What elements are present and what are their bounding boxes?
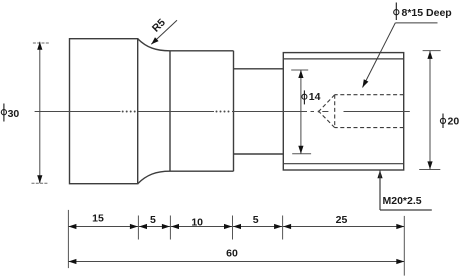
dimension Ø14 extension ticks: [291, 70, 311, 154]
centerline dot group 1: [122, 111, 136, 113]
svg-text:15: 15: [92, 212, 104, 224]
fillet R5 bottom curve: [138, 171, 170, 184]
bottom right extension line: [403, 216, 405, 276]
svg-text:5: 5: [253, 214, 259, 226]
svg-text:10: 10: [191, 216, 203, 228]
shaft section 2 outline: [170, 51, 234, 171]
svg-text:5: 5: [150, 214, 156, 226]
centerline dot group 2: [216, 111, 230, 113]
dimension Ø14 bottom arrow: [298, 146, 303, 154]
overall dim left arrow: [68, 259, 76, 264]
drill note leader line: [363, 23, 396, 88]
svg-text:25: 25: [336, 214, 348, 226]
bottom left extension line: [67, 210, 69, 268]
segment boundary tick 4: [282, 216, 284, 240]
dimension Ø14 top arrow: [298, 70, 303, 78]
svg-text:M20*2.5: M20*2.5: [383, 195, 422, 207]
drill note leader arrowhead: [363, 79, 369, 87]
dimension Ø30 line: [39, 42, 41, 183]
dimension Ø30 bottom arrow: [37, 175, 42, 183]
overall dim right arrow: [396, 259, 404, 264]
thread root lines: [283, 59, 403, 164]
drill note leader underline: [395, 22, 437, 24]
svg-text:20: 20: [448, 115, 460, 127]
dimension Ø20 top arrow: [427, 51, 432, 59]
R5 leader line: [151, 20, 177, 44]
threaded block M20 outline: [283, 53, 403, 170]
dimension Ø14 line: [300, 70, 302, 154]
centerline: [35, 111, 410, 113]
svg-text:8*15 Deep: 8*15 Deep: [402, 7, 452, 19]
svg-text:30: 30: [8, 108, 20, 120]
hidden drill hole Ø8 dashed outline: [319, 95, 404, 128]
segment boundary tick 1: [137, 216, 139, 240]
shaft section 1 (Ø30 cylinder) outline: [70, 39, 138, 184]
dimension Ø20 extension ticks: [419, 51, 440, 170]
segment boundary tick 2: [169, 216, 171, 240]
label Ø14 phi symbol: [302, 90, 307, 104]
fillet R5 top curve: [138, 39, 170, 51]
label Ø20 phi symbol: [440, 114, 445, 129]
dimension Ø20 bottom arrow: [427, 161, 432, 169]
dimension Ø30 extension ticks: [32, 43, 50, 183]
segment boundary tick 3: [232, 216, 234, 240]
label Ø30 phi symbol: [1, 104, 6, 122]
dimension Ø30 top arrow: [37, 42, 42, 50]
svg-text:60: 60: [226, 248, 238, 260]
centerline dot at drill point: [318, 111, 320, 113]
R5 leader arrowhead: [151, 37, 158, 44]
M20 thread leader line: [380, 170, 432, 210]
dimension Ø20 line: [429, 51, 431, 170]
label Ø8*15 Deep phi symbol: [394, 3, 399, 21]
segment dimension line: [68, 226, 404, 228]
segment dim arrows: [68, 224, 404, 229]
M20 thread leader arrowhead: [377, 170, 382, 178]
overall dimension line 60: [68, 261, 404, 263]
svg-text:R5: R5: [150, 17, 168, 35]
svg-text:14: 14: [309, 91, 321, 103]
shaft section 3 (Ø14 neck) outline: [234, 69, 284, 154]
